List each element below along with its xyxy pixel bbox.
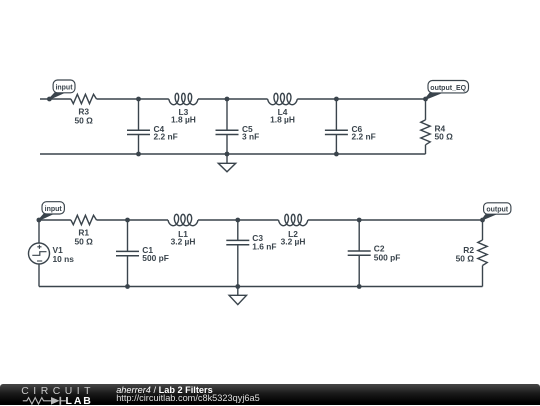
node dot C6 bottom: [334, 152, 339, 157]
node label output_EQ: [426, 81, 469, 100]
resistor R3: [71, 94, 97, 103]
ground bottom circuit: [229, 287, 246, 305]
wire node C4 to L3: [139, 98, 169, 100]
resistor R4: [421, 99, 430, 154]
node dot R2 top: [480, 218, 485, 223]
node dot R4 top: [423, 97, 428, 102]
node label output: [483, 203, 511, 220]
capacitor C1: [116, 220, 139, 287]
wire L2 to node C2: [308, 219, 359, 221]
capacitor C5: [216, 99, 239, 154]
node dot C1 bottom: [125, 284, 130, 289]
wire node C3 to L2: [238, 219, 279, 221]
svg-text:50 Ω: 50 Ω: [435, 131, 454, 141]
capacitor C2: [348, 220, 371, 287]
svg-text:500 pF: 500 pF: [142, 253, 169, 263]
node dot C3 bottom: [235, 284, 240, 289]
node label input (bottom): [37, 202, 65, 223]
footer bar: [0, 384, 540, 405]
inductor L2: [279, 214, 308, 225]
wire bottom rail bottom circuit: [39, 286, 483, 288]
wire node C5 to L4: [227, 98, 268, 100]
node dot C2 bottom: [357, 284, 362, 289]
wire R3 to node C4: [97, 98, 139, 100]
inductor L1: [168, 214, 198, 225]
node dot C5 top: [225, 97, 230, 102]
wire L1 to node C3: [198, 219, 238, 221]
node label input (top): [47, 80, 75, 101]
node dot C5 bottom: [225, 152, 230, 157]
svg-text:3 nF: 3 nF: [242, 131, 259, 141]
footer text: [116, 386, 260, 404]
svg-text:50 Ω: 50 Ω: [75, 236, 94, 246]
wire L3 to node C5: [198, 98, 227, 100]
svg-text:10 ns: 10 ns: [53, 254, 75, 264]
wire node C6 to R4: [336, 98, 425, 100]
capacitor C4: [127, 99, 150, 154]
svg-text:1.6 nF: 1.6 nF: [252, 242, 276, 252]
node dot C3 top: [235, 218, 240, 223]
svg-text:output: output: [486, 206, 508, 213]
voltage source V1: [29, 220, 50, 287]
svg-text:50 Ω: 50 Ω: [456, 254, 475, 264]
capacitor C3: [226, 220, 249, 287]
svg-text:2.2 nF: 2.2 nF: [352, 131, 376, 141]
svg-text:1.8 µH: 1.8 µH: [171, 114, 196, 124]
svg-text:3.2 µH: 3.2 µH: [171, 237, 196, 247]
wire R1 to node C1: [97, 219, 128, 221]
svg-text:3.2 µH: 3.2 µH: [281, 237, 306, 247]
wire node C1 to L1: [128, 219, 169, 221]
resistor R1: [71, 215, 97, 224]
svg-text:output_EQ: output_EQ: [430, 85, 466, 92]
wire bottom rail top circuit: [40, 153, 426, 155]
svg-text:input: input: [55, 85, 73, 92]
CircuitLab logo: [21, 385, 96, 406]
inductor L3: [169, 93, 198, 104]
inductor L4: [268, 93, 298, 104]
svg-text:500 pF: 500 pF: [374, 252, 401, 262]
node dot C1 top: [125, 218, 130, 223]
svg-text:2.2 nF: 2.2 nF: [154, 131, 178, 141]
wire L4 to node C6: [297, 98, 336, 100]
svg-text:LAB: LAB: [66, 395, 93, 406]
capacitor C6: [325, 99, 348, 154]
ground top circuit: [218, 154, 235, 172]
svg-text:input: input: [45, 206, 63, 213]
node dot C4 bottom: [136, 152, 141, 157]
svg-text:1.8 µH: 1.8 µH: [270, 114, 295, 124]
node dot C2 top: [357, 218, 362, 223]
svg-text:50 Ω: 50 Ω: [75, 115, 94, 125]
node dot C6 top: [334, 97, 339, 102]
node dot C4 top: [136, 97, 141, 102]
wire top input segment: [40, 98, 71, 100]
resistor R2: [478, 220, 487, 287]
wire node C2 to R2: [359, 219, 482, 221]
wire top input segment bottom circuit: [39, 219, 71, 221]
